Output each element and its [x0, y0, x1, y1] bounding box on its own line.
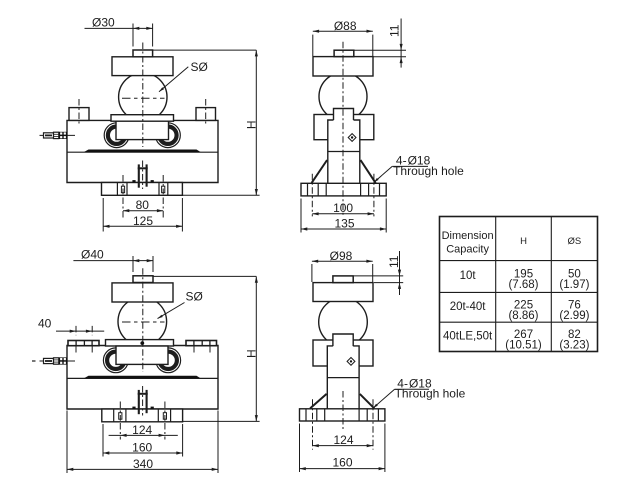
svg-text:H: H: [520, 236, 527, 247]
svg-text:160: 160: [132, 441, 152, 455]
svg-text:340: 340: [133, 457, 153, 471]
svg-text:Ø88: Ø88: [334, 19, 357, 33]
svg-text:(1.97): (1.97): [559, 279, 589, 291]
svg-text:124: 124: [333, 433, 353, 447]
svg-text:H: H: [244, 120, 258, 129]
svg-text:Ø40: Ø40: [81, 248, 104, 262]
svg-text:135: 135: [334, 216, 354, 230]
svg-text:(8.86): (8.86): [508, 310, 538, 322]
svg-text:Ø30: Ø30: [92, 15, 115, 29]
svg-text:125: 125: [133, 214, 153, 228]
svg-text:11: 11: [387, 255, 401, 268]
svg-text:100: 100: [333, 201, 353, 215]
svg-text:H: H: [244, 349, 258, 358]
svg-text:160: 160: [332, 455, 352, 469]
svg-text:80: 80: [136, 198, 150, 212]
svg-text:(7.68): (7.68): [508, 279, 538, 291]
svg-text:(10.51): (10.51): [505, 339, 542, 351]
svg-text:Dimension: Dimension: [442, 230, 494, 242]
svg-text:124: 124: [132, 423, 152, 437]
svg-text:SØ: SØ: [186, 289, 203, 303]
svg-text:SØ: SØ: [191, 60, 208, 74]
svg-text:10t: 10t: [460, 270, 477, 282]
svg-text:Through hole: Through hole: [395, 387, 466, 401]
svg-text:20t-40t: 20t-40t: [450, 301, 487, 313]
svg-text:40tLE,50t: 40tLE,50t: [443, 330, 493, 342]
svg-text:Capacity: Capacity: [446, 243, 489, 255]
svg-text:11: 11: [388, 24, 402, 37]
svg-text:(2.99): (2.99): [559, 310, 589, 322]
svg-text:Through hole: Through hole: [393, 164, 464, 178]
svg-text:Ø98: Ø98: [330, 249, 353, 263]
svg-text:ØS: ØS: [568, 236, 582, 247]
svg-text:40: 40: [38, 316, 52, 330]
svg-text:(3.23): (3.23): [559, 339, 589, 351]
